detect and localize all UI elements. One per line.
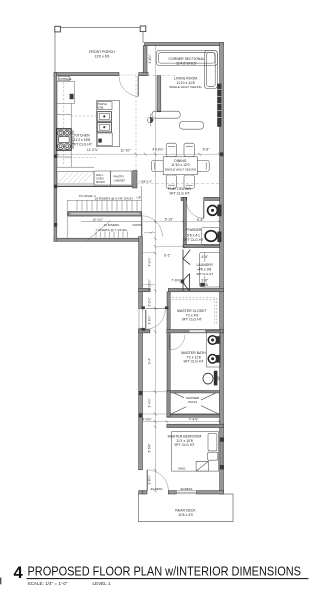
svg-text:4'-6⅞": 4'-6⅞" [148,54,152,63]
svg-text:TRASH: TRASH [98,102,107,106]
svg-text:5'-8": 5'-8" [203,147,211,151]
svg-text:9FT CLG HT: 9FT CLG HT [184,360,205,364]
svg-text:CAB.: CAB. [98,105,105,109]
svg-text:7'-0⅞": 7'-0⅞" [171,279,181,283]
svg-text:3'-5½": 3'-5½" [148,443,152,452]
svg-text:SINGLE VAULT CEILING: SINGLE VAULT CEILING [169,85,202,89]
svg-text:4'-6": 4'-6" [201,255,209,259]
svg-text:9FT CLG HT: 9FT CLG HT [184,238,205,242]
svg-text:DOWN: DOWN [133,223,143,227]
svg-text:5'-10": 5'-10" [165,217,174,221]
svg-text:WALL: WALL [96,173,104,177]
svg-text:4: 4 [14,564,24,582]
svg-text:4'-10¼": 4'-10¼" [152,147,164,151]
svg-text:EGRESS: EGRESS [151,487,163,491]
svg-text:KING: KING [178,467,186,471]
svg-text:CABINET: CABINET [114,178,126,182]
svg-text:FRONT PORCH: FRONT PORCH [89,50,115,54]
svg-text:UP: UP [137,195,141,199]
svg-text:POWDER: POWDER [186,228,202,232]
svg-text:9FT CLG HT: 9FT CLG HT [197,272,214,276]
svg-text:EGRESS: EGRESS [181,487,193,491]
svg-text:18 RISERS @ 6-7/8" EACH: 18 RISERS @ 6-7/8" EACH [95,196,133,200]
svg-text:11'8 x 4'0: 11'8 x 4'0 [178,513,193,517]
svg-text:4'-9⅞": 4'-9⅞" [148,257,152,266]
svg-text:11'-2⅞": 11'-2⅞" [87,148,99,152]
svg-text:LEVEL 1: LEVEL 1 [93,581,111,586]
svg-text:9FT CLG HT: 9FT CLG HT [72,142,93,146]
svg-text:KITCHEN: KITCHEN [74,134,90,138]
svg-text:4'-10⅞": 4'-10⅞" [148,280,152,291]
svg-text:WC: WC [217,376,221,381]
svg-text:11'-10": 11'-10" [120,149,131,153]
svg-text:4'-0⅞": 4'-0⅞" [142,418,152,422]
svg-text:9FT CLG HT: 9FT CLG HT [175,443,196,447]
svg-text:PROPOSED FLOOR PLAN w/INTERIOR: PROPOSED FLOOR PLAN w/INTERIOR DIMENSION… [28,564,302,579]
svg-text:FLAT CEILING: FLAT CEILING [168,187,191,191]
svg-text:11'1 x 10'8: 11'1 x 10'8 [176,439,193,443]
svg-text:LINE 0'-6": LINE 0'-6" [140,179,153,183]
svg-text:5'5 x 4'1: 5'5 x 4'1 [187,234,200,238]
svg-text:9FT CLG HT: 9FT CLG HT [170,191,191,195]
svg-text:MASTER CLOSET: MASTER CLOSET [177,309,207,313]
svg-text:OVEN: OVEN [96,176,104,180]
svg-text:3'-8": 3'-8" [201,278,209,282]
svg-text:10 RISERS: 10 RISERS [104,223,120,227]
svg-text:9'-8⅞": 9'-8⅞" [148,475,152,484]
svg-text:10'-1/2": 10'-1/2" [93,217,103,221]
svg-text:3'-4⅞": 3'-4⅞" [148,398,152,407]
svg-text:11'10 x 12'0: 11'10 x 12'0 [171,163,189,167]
svg-text:6'-1": 6'-1" [164,254,172,258]
svg-text:STORAGE: STORAGE [59,77,72,81]
svg-text:7'2 x 4'9: 7'2 x 4'9 [185,313,198,317]
svg-text:5'-8": 5'-8" [197,218,205,222]
svg-text:7'2 x 11'8: 7'2 x 11'8 [186,355,201,359]
svg-text:TO LEVEL 2: TO LEVEL 2 [79,194,96,198]
svg-text:7 RISERS @ 7-1/4"EA.: 7 RISERS @ 7-1/4"EA. [96,228,128,232]
svg-text:PANTRY: PANTRY [114,175,125,179]
svg-text:SCALE: 1/4" = 1'-0": SCALE: 1/4" = 1'-0" [28,581,68,586]
svg-text:3'-2⅞": 3'-2⅞" [148,297,152,306]
svg-text:MICRO: MICRO [96,180,105,184]
svg-text:11'4.5"x9'8.5": 11'4.5"x9'8.5" [176,61,198,65]
svg-text:9FT CLG HT: 9FT CLG HT [182,318,203,322]
svg-text:REAR DECK: REAR DECK [175,508,196,512]
svg-text:3'-0⅞": 3'-0⅞" [148,315,152,324]
svg-text:9'-4": 9'-4" [148,358,152,364]
svg-text:4'6x3'2: 4'6x3'2 [188,400,198,404]
svg-text:CORNER SECTIONAL: CORNER SECTIONAL [169,57,205,61]
svg-text:DINING: DINING [174,159,187,163]
svg-text:LAUNDRY: LAUNDRY [196,263,213,267]
svg-text:13'0 x 6'6: 13'0 x 6'6 [95,55,110,59]
svg-text:MASTER BEDROOM: MASTER BEDROOM [168,434,202,438]
svg-text:MASTER BATH: MASTER BATH [181,351,206,355]
svg-text:7'-4⅞": 7'-4⅞" [189,417,199,421]
svg-text:LIVING ROOM: LIVING ROOM [174,76,197,80]
svg-text:SINGLE VAULT CEILING: SINGLE VAULT CEILING [165,168,197,172]
